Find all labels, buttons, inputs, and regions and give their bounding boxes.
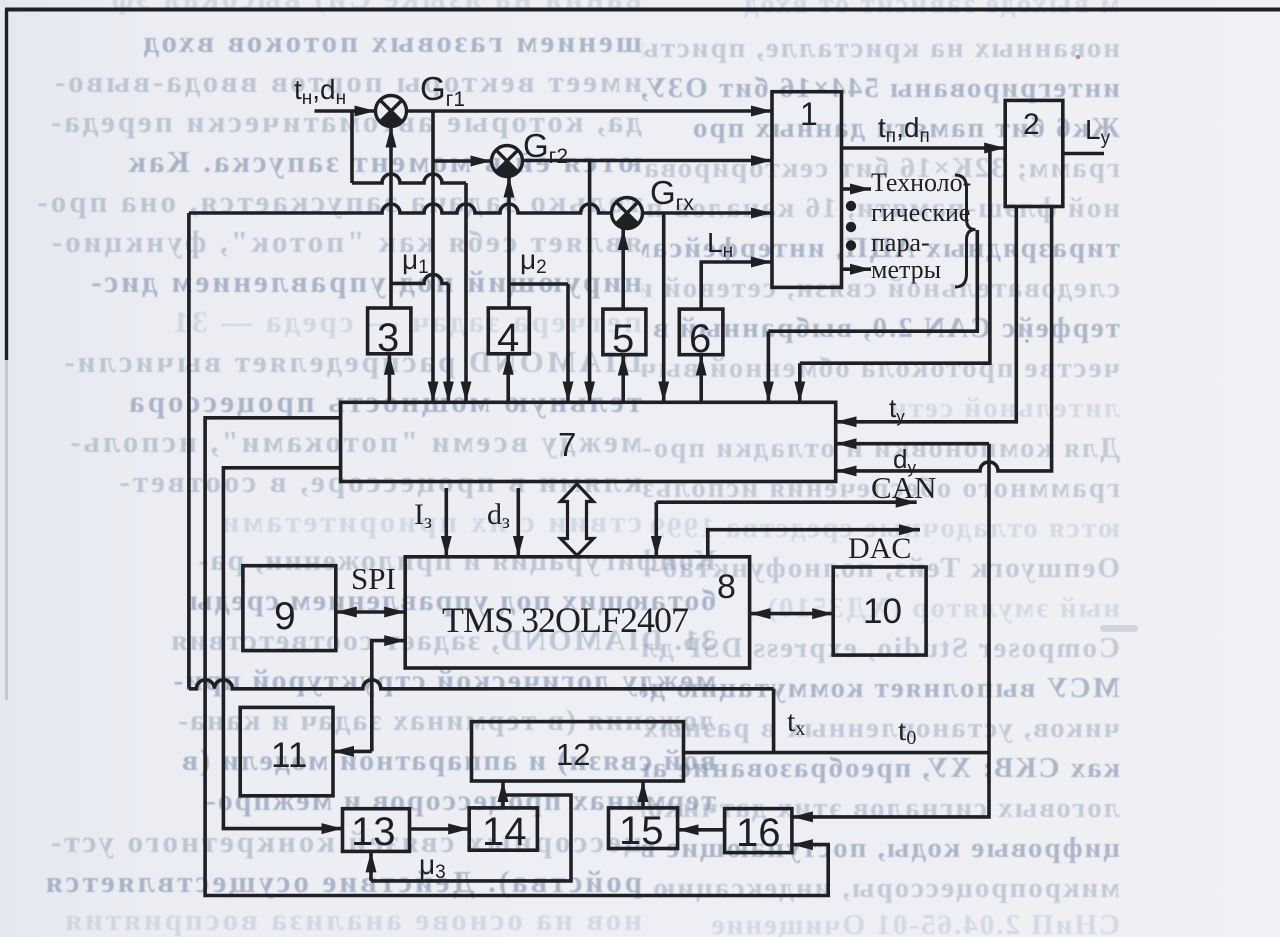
svg-text:3: 3 bbox=[377, 316, 399, 360]
svg-text:μ3: μ3 bbox=[419, 849, 446, 883]
mixer valve Gg2 bbox=[492, 146, 523, 177]
block 11 bbox=[240, 707, 333, 795]
wire horizontal y688.8 with hops to tx corner bbox=[189, 680, 774, 753]
svg-text:15: 15 bbox=[619, 809, 664, 853]
wire block 7 to block 5 bbox=[621, 355, 625, 403]
block 14 bbox=[469, 808, 537, 850]
svg-text:tу: tу bbox=[889, 393, 905, 426]
svg-text:9: 9 bbox=[274, 595, 296, 638]
scan artifact dot bbox=[1025, 339, 1029, 343]
wire Lu output of block 2 bbox=[1063, 152, 1104, 156]
block 10 DAC bbox=[833, 567, 926, 655]
svg-text:μ1: μ1 bbox=[402, 244, 429, 278]
svg-text:4: 4 bbox=[497, 316, 519, 360]
wire dy from block 2 into block 7 right with hop bbox=[836, 206, 1052, 471]
svg-text:2: 2 bbox=[1023, 108, 1040, 141]
wire double arrow block 8 to block 10 bbox=[750, 612, 834, 616]
wire branch at x663.7 down to block 7 bbox=[662, 213, 666, 402]
wire block 1 parameter arrow 2 bbox=[842, 267, 872, 271]
wire block 7 to block 4 bbox=[506, 354, 510, 403]
wire mu1 from block 3 up to mixer G1 bbox=[389, 127, 393, 309]
wire mu2 branch to block 7 bbox=[509, 284, 568, 402]
wire CAN horizontal arrow bbox=[656, 500, 916, 504]
mixer valve Gg1 bbox=[376, 96, 407, 127]
svg-text:DAC: DAC bbox=[848, 532, 911, 565]
svg-text:μ2: μ2 bbox=[520, 244, 547, 278]
wire tn,dn input to mixer G1 bbox=[315, 109, 376, 113]
svg-text:11: 11 bbox=[271, 736, 307, 775]
svg-text:dз: dз bbox=[487, 498, 510, 533]
block 2 bbox=[1005, 100, 1063, 206]
wire G2 output to block 1 input 2 bbox=[523, 159, 773, 163]
block 15 bbox=[609, 808, 678, 849]
bleed-through mirrored text, right column bbox=[642, 0, 1120, 21]
wire block 13 to block 14 bbox=[410, 827, 470, 831]
wire from block 5 up to mixer Ggx bbox=[621, 229, 625, 309]
svg-text:tп,dп: tп,dп bbox=[878, 112, 930, 147]
wire block 7 to block 6 bbox=[699, 355, 703, 403]
svg-text:TMS 32OLF2407: TMS 32OLF2407 bbox=[442, 600, 688, 640]
svg-text:5: 5 bbox=[612, 317, 634, 361]
block 4 bbox=[488, 308, 529, 354]
wire tp,dp from block 1 to block 2 bbox=[842, 146, 1006, 150]
block 6 bbox=[679, 309, 723, 355]
block 9 bbox=[243, 566, 336, 651]
wire ty from block 2 into block 7 right bbox=[836, 206, 1017, 422]
scan artifact dot bbox=[1076, 55, 1080, 59]
wire from block 8 top up and right arrow bbox=[708, 530, 920, 557]
wire branch at x433 down to block 7 bbox=[431, 111, 435, 402]
svg-text:CAN: CAN bbox=[871, 470, 936, 505]
svg-text:Gг1: Gг1 bbox=[420, 70, 465, 111]
svg-text:10: 10 bbox=[863, 592, 902, 631]
svg-text:SPI: SPI bbox=[351, 561, 396, 596]
bleed-through mirrored text, left column bbox=[0, 0, 642, 16]
wire branch from input down and right with hops, node at x352 bbox=[352, 111, 466, 402]
svg-text:13: 13 bbox=[351, 810, 396, 854]
wire block 7 to block 3 bbox=[388, 354, 392, 403]
bullet dots for parameters bbox=[846, 201, 856, 211]
block 3 bbox=[368, 308, 411, 354]
svg-text:16: 16 bbox=[736, 811, 781, 855]
wire block 7 left exit to bottom line and block 16 bbox=[205, 418, 828, 896]
wire mu1 branch to block 7 with hop bbox=[391, 274, 448, 402]
svg-text:Gг2: Gг2 bbox=[523, 127, 568, 168]
wire Ln from block 6 to block 1 input 4 bbox=[701, 262, 772, 309]
wire t0 vertical down to block 16 bbox=[792, 444, 989, 817]
wire from corner into block 8 left edge bbox=[372, 641, 405, 752]
wire block 16 to block 15 bbox=[678, 828, 725, 832]
wire mu3 feedback from node to block 13 bbox=[371, 795, 571, 881]
page left border line bbox=[5, 10, 8, 361]
svg-text:12: 12 bbox=[556, 737, 590, 772]
wire arrow into block 11 right edge bbox=[333, 750, 372, 754]
page left border line faded lower part bbox=[5, 360, 8, 700]
wire G1 output to block 1 input 1 bbox=[407, 109, 773, 113]
block 16 bbox=[725, 809, 792, 853]
block 1 bbox=[772, 92, 842, 288]
wire Iz arrow into block 8 bbox=[444, 488, 448, 557]
svg-text:1: 1 bbox=[800, 96, 818, 132]
wire SPI double arrow block 9 to block 8 bbox=[336, 610, 405, 614]
block 7 bbox=[341, 402, 836, 481]
svg-text:Iз: Iз bbox=[414, 498, 432, 533]
block 12 bbox=[472, 722, 684, 781]
svg-text:7: 7 bbox=[558, 426, 576, 463]
wire CAN into block 8 with right arrow bbox=[654, 502, 658, 557]
wire into block 7 right y443.7 bbox=[836, 442, 989, 446]
wire from tp,dp junction down into block 7 bbox=[800, 148, 990, 402]
wire block 7 left exit 2 to block 13 bbox=[223, 468, 342, 829]
svg-text:метры: метры bbox=[871, 255, 941, 284]
svg-text:tх: tх bbox=[787, 705, 805, 740]
svg-text:Gгх: Gгх bbox=[650, 174, 694, 215]
svg-text:14: 14 bbox=[482, 810, 527, 854]
svg-text:6: 6 bbox=[689, 317, 711, 361]
wire t0 horizontal from block 12 bbox=[684, 751, 990, 755]
svg-text:8: 8 bbox=[717, 568, 736, 606]
wire block 1 parameter arrow 1 bbox=[842, 187, 872, 191]
block 5 bbox=[603, 309, 646, 355]
svg-text:Lу: Lу bbox=[1085, 114, 1111, 149]
page top border line bbox=[5, 8, 1280, 12]
svg-text:пара-: пара- bbox=[871, 228, 930, 257]
mixer valve Ggx bbox=[612, 198, 643, 229]
scan artifact smudge bbox=[1100, 625, 1138, 632]
double outline arrow between block 7 and block 8 bbox=[561, 484, 594, 556]
wire block 14 up to block 12 bbox=[501, 781, 505, 808]
svg-text:t0: t0 bbox=[898, 714, 916, 749]
svg-text:Lн: Lн bbox=[707, 227, 733, 262]
curly brace for parameters bbox=[955, 175, 976, 287]
wire from brace down into block 7 bbox=[768, 230, 977, 402]
wire branch at x589 down to block 7 bbox=[588, 161, 592, 402]
block 8 TMS processor bbox=[405, 557, 749, 668]
svg-text:Техноло-: Техноло- bbox=[871, 168, 971, 197]
svg-text:tн,dн: tн,dн bbox=[294, 74, 346, 109]
svg-text:гические: гические bbox=[871, 198, 970, 227]
wire dz arrow into block 8 bbox=[516, 488, 520, 557]
wire block 15 up to block 12 bbox=[641, 781, 645, 808]
wire long vertical x188.9 from Ggx line down bbox=[187, 213, 191, 689]
wire G2 input from x433 junction bbox=[433, 159, 492, 163]
wire mu2 from block 4 up to mixer G2 bbox=[507, 177, 511, 309]
wire Ggx output to block 1 input 3 bbox=[643, 211, 773, 215]
wire Ggx input line y213 with hops bbox=[189, 204, 612, 213]
block 13 bbox=[343, 809, 410, 852]
